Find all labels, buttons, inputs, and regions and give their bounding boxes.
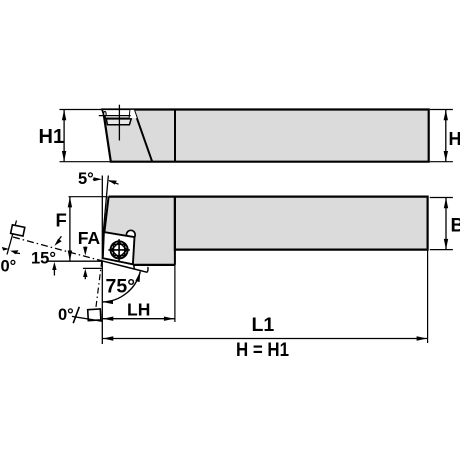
label 15 degrees xyxy=(31,236,62,275)
cutting edge line xyxy=(102,261,148,273)
screw xyxy=(108,239,129,260)
svg-text:0°: 0° xyxy=(1,258,17,276)
dimension LH xyxy=(102,299,175,321)
plan view head xyxy=(104,197,175,265)
svg-text:FA: FA xyxy=(78,228,101,248)
side view pocket slant line xyxy=(134,110,152,162)
svg-text:H1: H1 xyxy=(39,126,65,148)
svg-text:H: H xyxy=(449,129,460,149)
tip horizontal line xyxy=(47,260,102,262)
dimension B xyxy=(430,198,460,250)
svg-text:75°: 75° xyxy=(106,275,136,297)
side view pocket sliver xyxy=(130,110,137,118)
clamp bump xyxy=(126,230,135,239)
side view screw centerline horizontal xyxy=(99,115,131,117)
insert lower edge right closing line xyxy=(133,264,136,268)
dimension L1 xyxy=(102,314,427,341)
15 degree dash-dot line xyxy=(13,237,102,261)
svg-text:LH: LH xyxy=(127,299,150,319)
insert white gap under clamp xyxy=(102,258,134,268)
svg-text:15°: 15° xyxy=(31,250,56,268)
left insert cross-section xyxy=(7,221,25,255)
svg-text:H = H1: H = H1 xyxy=(236,339,289,361)
label 5 degrees xyxy=(78,170,119,188)
svg-text:F: F xyxy=(56,210,67,231)
5 degree edge extension line xyxy=(103,176,108,234)
head/shank extension line xyxy=(174,265,176,322)
side view body xyxy=(103,110,429,162)
dimension H xyxy=(430,110,460,162)
svg-text:B: B xyxy=(451,216,460,237)
side view insert xyxy=(106,119,131,125)
dimension FA xyxy=(78,228,103,279)
bottom insert cross-section xyxy=(72,307,103,323)
cutting edge end hook xyxy=(146,267,149,272)
label 0 degrees left xyxy=(1,247,21,276)
75 degree arc xyxy=(102,271,140,304)
dimension F xyxy=(56,197,108,261)
right end extension line xyxy=(427,251,429,344)
plan view shank xyxy=(175,197,428,250)
svg-text:0°: 0° xyxy=(58,306,74,324)
svg-text:5°: 5° xyxy=(78,170,94,188)
side view head/shank boundary line xyxy=(174,110,176,162)
side view screw centerline vertical xyxy=(118,105,120,141)
bottom dashed axis xyxy=(96,261,102,309)
vertical reference line through tip xyxy=(101,176,103,345)
dimension H1 xyxy=(39,110,111,162)
insert (clamp top view) xyxy=(103,232,135,264)
svg-text:L1: L1 xyxy=(252,314,275,336)
side view clamp xyxy=(102,109,130,118)
